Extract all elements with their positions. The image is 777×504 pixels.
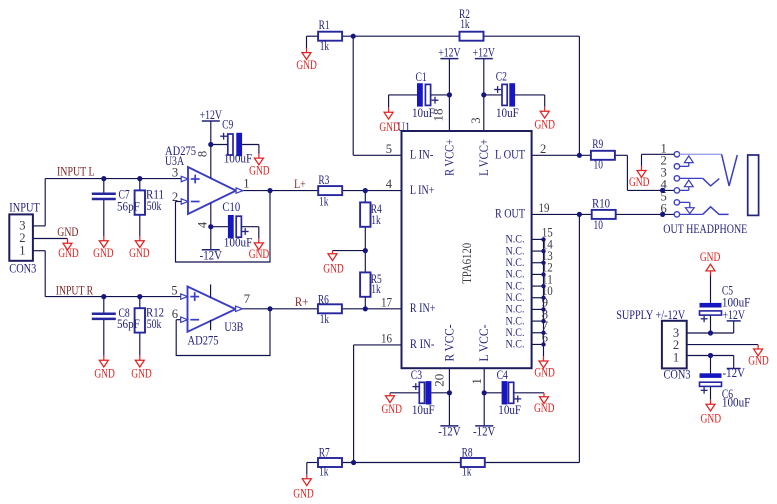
capacitor C3 <box>411 368 435 417</box>
wire U3B pin6 stub <box>176 319 181 321</box>
jack label OUT HEADPHONE <box>663 221 747 236</box>
svg-text:CON3: CON3 <box>9 260 36 275</box>
ground C6 bottom <box>701 400 722 426</box>
svg-text:GND: GND <box>131 366 152 380</box>
U1 pin number 5 <box>386 142 392 156</box>
svg-text:18: 18 <box>432 109 446 122</box>
wire pin 4 L IN+ <box>365 190 401 192</box>
jack sleeve zigzag <box>703 207 729 215</box>
svg-text:1k: 1k <box>320 39 330 53</box>
U1 pin name N.C. #10 <box>506 338 525 351</box>
wire C3 left to GND <box>390 392 419 394</box>
wire divider column R4 to R5 <box>364 191 366 309</box>
ground C9 <box>249 154 270 178</box>
wire L OUT to R9 <box>532 154 591 156</box>
power +12V <box>200 107 223 122</box>
op-amp IC U1 TPA6120 body <box>397 119 531 368</box>
svg-text:INPUT: INPUT <box>9 200 40 215</box>
wire U3B output to R6 <box>242 308 318 310</box>
junction R3/R4 node <box>363 188 368 193</box>
wire C6 column <box>710 356 712 400</box>
ground CON3 input pin2 <box>58 238 79 260</box>
svg-text:1: 1 <box>470 378 484 384</box>
svg-text:-12V: -12V <box>723 365 746 380</box>
wire C10 right to GND <box>242 227 259 239</box>
U1 pin number 4 <box>386 177 393 191</box>
U1 pin number 6 <box>542 331 548 345</box>
svg-text:R1: R1 <box>319 18 330 32</box>
capacitor C1 <box>412 70 438 120</box>
junction L OUT / R2 / R9 <box>577 153 582 158</box>
capacitor C10 <box>222 200 252 249</box>
ground jack pin1 <box>629 166 650 189</box>
svg-text:GND: GND <box>629 175 650 189</box>
connector CON3 INPUT <box>9 200 40 276</box>
wire U3A feedback loop <box>176 191 271 262</box>
wire R12 top <box>139 297 141 309</box>
CON3 supply pin 2 <box>673 338 679 352</box>
ground C8 <box>94 356 115 381</box>
junction N.C. 9 <box>541 307 545 311</box>
U1 pin name R VCC- (rotated) <box>442 325 456 362</box>
ground R1 <box>296 48 317 72</box>
U1 pin name N.C. #6 <box>506 291 525 304</box>
svg-text:R6: R6 <box>318 292 329 306</box>
jack pin numbers 1..6 <box>660 142 667 216</box>
U1 pin number 2 <box>540 142 546 156</box>
power -12V <box>723 365 746 380</box>
power -12V <box>200 247 223 262</box>
U1 pin name N.C. #5 <box>506 279 525 292</box>
wire U3B feedback loop <box>176 309 270 356</box>
wire C3 right <box>431 392 449 394</box>
svg-text:56pF: 56pF <box>117 317 140 331</box>
resistor R11 <box>135 188 164 215</box>
junction N.C. 12 <box>541 272 545 276</box>
U1 pin number 1 (rotated) <box>470 378 484 384</box>
capacitor C5 <box>700 283 751 322</box>
junction N.C. 15 <box>541 237 545 241</box>
U1 pin number 15 <box>542 226 553 240</box>
U1 pin name N.C. #4 <box>506 268 525 281</box>
U1 pin number 13 <box>542 249 553 263</box>
power +12V <box>438 45 461 60</box>
jack pin2 switch arrow <box>680 156 694 166</box>
wire R7 left to GND elbow <box>307 463 318 475</box>
wire supply pin2 row to GND <box>687 344 758 346</box>
svg-text:+12V: +12V <box>473 45 496 60</box>
svg-text:GND: GND <box>57 224 78 239</box>
svg-text:+12V: +12V <box>723 307 746 322</box>
svg-text:GND: GND <box>534 117 555 131</box>
resistor R8 <box>461 445 485 478</box>
wire R1 left to GND elbow <box>307 36 319 48</box>
wire R11 top <box>139 179 141 191</box>
wire U3A output to R3 <box>243 190 318 192</box>
junction U3A -12V / C10 <box>208 224 213 229</box>
capacitor C4 <box>497 368 522 417</box>
svg-text:TPA6120: TPA6120 <box>460 243 474 284</box>
U1 pin name N.C. #8 <box>506 314 525 327</box>
junction INPUT L / C7 <box>101 176 106 181</box>
svg-text:100uF: 100uF <box>224 152 253 166</box>
junction C2 / pin3 <box>481 92 486 97</box>
U3A pin number 3 <box>172 166 178 180</box>
U3A pin number 2 <box>172 190 178 204</box>
capacitor C9 <box>220 118 252 166</box>
svg-text:R3: R3 <box>318 173 329 187</box>
wire R6 right to divider <box>342 308 365 310</box>
wire C5 column <box>710 276 712 334</box>
U1 pin number 11 <box>542 272 553 286</box>
wire divider GND tee <box>333 250 366 252</box>
ground C5 top <box>700 250 721 276</box>
op-amp U3B <box>181 284 244 347</box>
svg-text:8: 8 <box>196 151 210 157</box>
junction R7 / R IN- <box>351 460 356 465</box>
U1 pin name R IN- <box>410 337 435 351</box>
node INPUT L <box>57 163 95 178</box>
connector CON3 SUPPLY <box>616 307 690 382</box>
U1 pin number 19 <box>539 201 550 215</box>
CON3 supply pin 3 <box>673 326 679 340</box>
svg-text:R8: R8 <box>462 445 473 459</box>
wire C9 left <box>211 144 228 146</box>
wire R12 bottom to GND <box>139 333 141 356</box>
capacitor C8 <box>92 306 140 331</box>
node L+ <box>294 176 306 191</box>
svg-text:C2: C2 <box>496 70 507 84</box>
svg-text:-12V: -12V <box>473 424 496 439</box>
wire C4 right to GND <box>514 392 544 394</box>
svg-text:5: 5 <box>171 284 177 298</box>
junction C1 / pin18 <box>447 92 452 97</box>
ground C10 <box>249 238 270 260</box>
U1 pin name L OUT <box>495 148 525 162</box>
svg-text:INPUT L: INPUT L <box>57 163 95 178</box>
resistor R6 <box>318 292 342 326</box>
svg-text:GND: GND <box>534 365 555 379</box>
wire INPUT R net <box>45 296 181 298</box>
wire -12V column pin 20 / C3 <box>448 368 450 426</box>
junction N.C. 8 <box>541 319 545 323</box>
svg-text:R VCC-: R VCC- <box>442 325 456 362</box>
wire C9 right to GND <box>242 145 259 154</box>
wire N.C. chain vertical <box>543 239 545 356</box>
svg-text:OUT HEADPHONE: OUT HEADPHONE <box>663 221 747 236</box>
svg-text:1k: 1k <box>371 282 381 296</box>
wire jack pin 1 to GND <box>642 154 675 166</box>
junction C3 / pin20 <box>447 390 452 395</box>
ground C7 <box>93 236 114 260</box>
svg-text:1k: 1k <box>319 195 329 209</box>
resistor R3 <box>318 173 342 209</box>
wire pin 16 R IN- down to bottom row <box>354 345 402 463</box>
wire R OUT to R10 <box>532 213 592 215</box>
svg-text:1k: 1k <box>319 465 329 479</box>
svg-text:C9: C9 <box>222 118 233 132</box>
svg-text:GND: GND <box>129 246 150 260</box>
junction jack pin4 wire <box>660 188 665 193</box>
svg-text:R7: R7 <box>319 445 330 459</box>
svg-text:GND: GND <box>93 246 114 260</box>
U1 N.C. pin stubs 15..6 <box>532 239 544 344</box>
svg-text:5: 5 <box>386 142 392 156</box>
capacitor C6 <box>700 373 751 409</box>
junction U3B out <box>267 306 272 311</box>
svg-text:U3B: U3B <box>224 319 243 334</box>
wire INPUT L net <box>45 178 181 180</box>
wire R3 right to divider <box>342 190 365 192</box>
U1 pin name R VCC+ (rotated) <box>442 139 456 176</box>
svg-text:GND: GND <box>379 120 400 134</box>
svg-text:GND: GND <box>323 261 344 275</box>
jack pin5 switch arrow <box>680 202 695 213</box>
junction INPUT R / C8 <box>101 294 106 299</box>
resistor R1 <box>318 18 342 53</box>
junction R4/R5 GND node <box>363 248 368 253</box>
op-amp U3A <box>165 121 243 250</box>
junction jack pin6 wire <box>660 212 665 217</box>
svg-text:1: 1 <box>19 243 25 257</box>
U3B pin number 6 <box>172 307 178 321</box>
U1 pin number 7 <box>542 319 548 333</box>
CON3 input pin 1 <box>19 243 25 257</box>
svg-text:1k: 1k <box>320 312 330 326</box>
U1 pin name N.C. #3 <box>506 256 525 269</box>
jack pin4 switch arrow <box>680 180 694 190</box>
wire C8 bottom to GND <box>103 320 105 356</box>
svg-text:GND: GND <box>249 247 270 261</box>
U1 pin number 10 <box>542 284 553 298</box>
wire CON3 pin3 stub up to INPUT L <box>33 179 45 226</box>
svg-text:3: 3 <box>469 117 483 123</box>
svg-text:10uF: 10uF <box>498 403 521 417</box>
svg-text:GND: GND <box>249 164 270 178</box>
svg-text:3: 3 <box>172 166 178 180</box>
junction supply pin3 / C5 <box>708 330 713 335</box>
svg-text:17: 17 <box>381 295 392 309</box>
svg-text:4: 4 <box>196 221 210 228</box>
svg-text:GND: GND <box>293 486 314 500</box>
U1 pin number 17 <box>381 295 392 309</box>
wire U3A pin2 stub <box>176 201 182 203</box>
svg-text:10uF: 10uF <box>412 403 435 417</box>
U1 pin number 18 (rotated) <box>432 109 446 122</box>
wire C1 left to GND <box>389 95 417 108</box>
ground C3 <box>381 393 402 416</box>
svg-text:56pF: 56pF <box>117 200 140 214</box>
svg-text:GND: GND <box>94 366 115 380</box>
wire pin 17 R IN+ <box>365 308 401 310</box>
ground R11 <box>129 236 150 260</box>
svg-text:1: 1 <box>243 176 249 190</box>
power +12V <box>723 307 746 322</box>
svg-text:R OUT: R OUT <box>495 207 525 221</box>
svg-text:C4: C4 <box>497 368 508 382</box>
junction N.C. 6 <box>541 342 545 346</box>
resistor R4 <box>360 202 382 227</box>
wire bottom row R7 to R8 <box>342 462 461 464</box>
junction N.C. 7 <box>541 331 545 335</box>
wire supply pin3 row <box>687 321 734 333</box>
wire C7 top <box>103 179 105 193</box>
U3A pin number 8 (rotated) <box>196 151 210 157</box>
svg-text:7: 7 <box>244 292 250 306</box>
jack ring zigzag <box>703 178 720 186</box>
wire C4 left <box>484 392 501 394</box>
resistor R5 <box>360 272 382 297</box>
svg-text:+12V: +12V <box>200 107 223 122</box>
U1 pin number 12 <box>542 261 553 275</box>
wire C2 left <box>484 94 502 96</box>
wire supply pin1 row <box>687 356 734 369</box>
node GND net label at CON3 input <box>57 224 78 239</box>
svg-text:GND: GND <box>534 401 555 415</box>
svg-text:R VCC+: R VCC+ <box>442 139 456 176</box>
wire CON3 pin2 stub to GND <box>33 238 68 240</box>
svg-text:16: 16 <box>381 331 392 345</box>
U1 pin name L IN+ <box>410 183 435 197</box>
svg-text:+12V: +12V <box>438 45 461 60</box>
jack tip spring V <box>722 154 738 186</box>
junction N.C. 13 <box>541 261 545 265</box>
U3B pin number 5 <box>171 284 177 298</box>
ground divider <box>323 251 344 276</box>
wire left vertical R1 junction down to pin 5 <box>353 36 401 155</box>
U1 pin number 9 <box>542 296 548 310</box>
jack body rectangle <box>748 155 759 215</box>
wire CON3 pin1 stub down to INPUT R <box>33 251 45 297</box>
resistor R2 <box>459 7 484 41</box>
svg-text:L VCC+: L VCC+ <box>477 139 491 176</box>
svg-text:1: 1 <box>673 350 679 364</box>
U1 pin number 20 (rotated) <box>433 374 447 387</box>
svg-text:-12V: -12V <box>438 424 461 439</box>
node R+ <box>295 294 309 309</box>
resistor R9 <box>591 137 615 172</box>
svg-text:R10: R10 <box>592 197 610 211</box>
headphone jack pin circles 1..6 <box>674 152 679 217</box>
svg-text:10: 10 <box>594 218 603 232</box>
svg-text:GND: GND <box>700 250 721 264</box>
svg-text:R IN+: R IN+ <box>410 301 436 315</box>
wire R9 right elbow down to jack pin 4 <box>615 155 674 190</box>
U1 pin name N.C. #2 <box>506 244 525 257</box>
svg-text:1k: 1k <box>371 213 381 227</box>
svg-text:R9: R9 <box>592 137 603 151</box>
U1 pin number 8 <box>542 307 548 321</box>
CON3 input pin 2 <box>19 231 25 245</box>
svg-text:L IN+: L IN+ <box>410 183 435 197</box>
U1 pin name L VCC- (rotated) <box>477 325 491 362</box>
U1 pin name R OUT <box>495 207 525 221</box>
resistor R7 <box>318 445 342 478</box>
svg-text:10: 10 <box>594 158 603 172</box>
wire C7 bottom to GND <box>103 200 105 236</box>
wire C8 top <box>103 297 105 313</box>
U1 pin number 3 (rotated) <box>469 117 483 123</box>
U1 pin name R IN+ <box>410 301 436 315</box>
junction supply pin1 / C6 <box>708 353 713 358</box>
resistor R12 <box>135 306 164 333</box>
wire C1 right <box>431 94 449 96</box>
node INPUT R <box>56 283 94 298</box>
ground supply pin2 <box>748 345 769 368</box>
svg-text:1k: 1k <box>462 465 472 479</box>
ground R12 <box>131 356 152 381</box>
wire C2 right to GND <box>515 95 545 107</box>
jack sleeve contact line <box>680 213 703 215</box>
capacitor C2 <box>494 70 519 121</box>
junction U3A out <box>267 188 272 193</box>
svg-text:GND: GND <box>748 354 769 368</box>
svg-text:C1: C1 <box>416 70 427 84</box>
ground N.C. chain <box>534 356 555 379</box>
svg-text:C3: C3 <box>411 368 422 382</box>
svg-text:L+: L+ <box>294 176 306 191</box>
svg-text:100uF: 100uF <box>722 396 751 410</box>
CON3 input pin 3 <box>19 219 25 233</box>
U1 pin name L IN- <box>410 148 434 162</box>
svg-text:N.C.: N.C. <box>506 338 525 351</box>
svg-text:2: 2 <box>540 142 546 156</box>
U1 pin name L VCC+ (rotated) <box>477 139 491 176</box>
wire R8 right up to R OUT row <box>485 214 580 462</box>
svg-text:20: 20 <box>433 374 447 387</box>
svg-text:L VCC-: L VCC- <box>477 325 491 362</box>
junction N.C. 10 <box>541 296 545 300</box>
junction N.C. 14 <box>541 249 545 253</box>
svg-text:2: 2 <box>172 190 178 204</box>
svg-text:50k: 50k <box>147 199 162 213</box>
svg-text:GND: GND <box>381 402 402 416</box>
svg-text:R+: R+ <box>295 294 309 309</box>
U1 pin number 14 <box>542 237 554 251</box>
svg-text:SUPPLY +/-12V: SUPPLY +/-12V <box>616 307 685 322</box>
svg-text:10uF: 10uF <box>496 106 519 120</box>
svg-text:6: 6 <box>172 307 178 321</box>
svg-text:GND: GND <box>58 246 79 260</box>
junction INPUT R / R12 <box>137 294 142 299</box>
wire -12V column pin 1 / C4 <box>483 368 485 426</box>
power -12V <box>438 424 461 439</box>
ground C1 <box>379 108 400 134</box>
svg-text:INPUT R: INPUT R <box>56 283 94 298</box>
U1 pin name N.C. #7 <box>506 303 525 316</box>
wire +12V column pin 3 / C2 <box>483 59 485 131</box>
svg-text:-12V: -12V <box>200 247 223 262</box>
U1 pin number 16 <box>381 331 392 345</box>
power +12V <box>473 45 496 60</box>
junction C4 / pin1 <box>482 390 487 395</box>
junction N.C. 11 <box>541 284 545 288</box>
U3B pin number 7 <box>244 292 250 306</box>
junction R1/R2/L IN- <box>351 34 356 39</box>
svg-text:AD275: AD275 <box>188 333 219 348</box>
junction U3A +12V / C9 <box>208 142 213 147</box>
capacitor C7 <box>92 188 140 214</box>
wire C10 left <box>211 226 228 228</box>
U3A pin number 1 <box>243 176 249 190</box>
svg-text:19: 19 <box>539 201 550 215</box>
power -12V <box>473 424 496 439</box>
wire R1 right / top row through R2 to right corner <box>342 35 579 37</box>
U3A pin number 4 (rotated) <box>196 221 210 228</box>
wire right vertical R2 corner down to L OUT row <box>578 36 580 155</box>
ground R7 <box>293 474 314 500</box>
svg-text:C10: C10 <box>222 200 240 214</box>
